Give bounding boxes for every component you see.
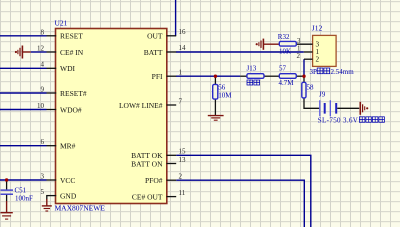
- svg-text:2: 2: [316, 55, 320, 63]
- svg-text:1: 1: [179, 68, 183, 76]
- svg-text:BATT ON: BATT ON: [131, 159, 163, 168]
- svg-text:3: 3: [41, 172, 45, 180]
- svg-text:3P: 3P: [310, 68, 318, 76]
- svg-text:RESET: RESET: [60, 32, 83, 41]
- svg-text:14: 14: [179, 44, 187, 52]
- svg-text:PFO#: PFO#: [145, 176, 163, 185]
- svg-text:J13: J13: [247, 65, 257, 73]
- svg-text:10M: 10M: [218, 92, 232, 100]
- svg-text:10: 10: [37, 102, 45, 110]
- svg-text:16: 16: [179, 28, 187, 36]
- svg-text:BATT: BATT: [144, 48, 163, 57]
- svg-text:9: 9: [41, 85, 45, 93]
- svg-text:7: 7: [179, 97, 183, 105]
- svg-text:2: 2: [179, 173, 183, 181]
- svg-text:6: 6: [41, 138, 45, 146]
- svg-text:57: 57: [279, 65, 287, 73]
- svg-text:WDI: WDI: [60, 64, 75, 73]
- svg-text:CE# IN: CE# IN: [60, 48, 84, 57]
- svg-text:LOW# LINE#: LOW# LINE#: [119, 101, 163, 110]
- svg-text:CE# OUT: CE# OUT: [132, 192, 163, 201]
- svg-text:SL-750 3.6V: SL-750 3.6V: [318, 116, 358, 124]
- svg-text:RESET#: RESET#: [60, 89, 87, 98]
- svg-text:11: 11: [179, 189, 186, 197]
- svg-text:58: 58: [307, 83, 315, 91]
- svg-text:4: 4: [41, 60, 45, 68]
- svg-text:U21: U21: [55, 19, 68, 28]
- svg-text:8: 8: [41, 28, 45, 36]
- svg-text:MR#: MR#: [60, 142, 76, 151]
- svg-text:2.54mm: 2.54mm: [331, 68, 355, 76]
- svg-text:10K: 10K: [279, 47, 291, 55]
- svg-text:C51: C51: [15, 186, 27, 194]
- svg-text:WDO#: WDO#: [60, 105, 82, 114]
- svg-text:VCC: VCC: [60, 176, 75, 185]
- svg-text:2: 2: [297, 52, 301, 60]
- svg-text:4.7M: 4.7M: [279, 79, 295, 87]
- svg-text:13: 13: [179, 156, 187, 164]
- svg-text:56: 56: [218, 84, 226, 92]
- svg-text:MAX807NEWE: MAX807NEWE: [55, 204, 106, 213]
- svg-text:GND: GND: [60, 191, 77, 200]
- svg-text:R32: R32: [278, 33, 290, 41]
- svg-text:15: 15: [179, 148, 187, 156]
- svg-text:PFI: PFI: [152, 72, 163, 81]
- svg-text:OUT: OUT: [147, 32, 163, 41]
- svg-text:J12: J12: [312, 24, 323, 33]
- svg-text:100nF: 100nF: [15, 195, 33, 203]
- svg-text:J9: J9: [319, 91, 326, 99]
- svg-text:12: 12: [37, 44, 45, 52]
- svg-text:5: 5: [41, 188, 45, 196]
